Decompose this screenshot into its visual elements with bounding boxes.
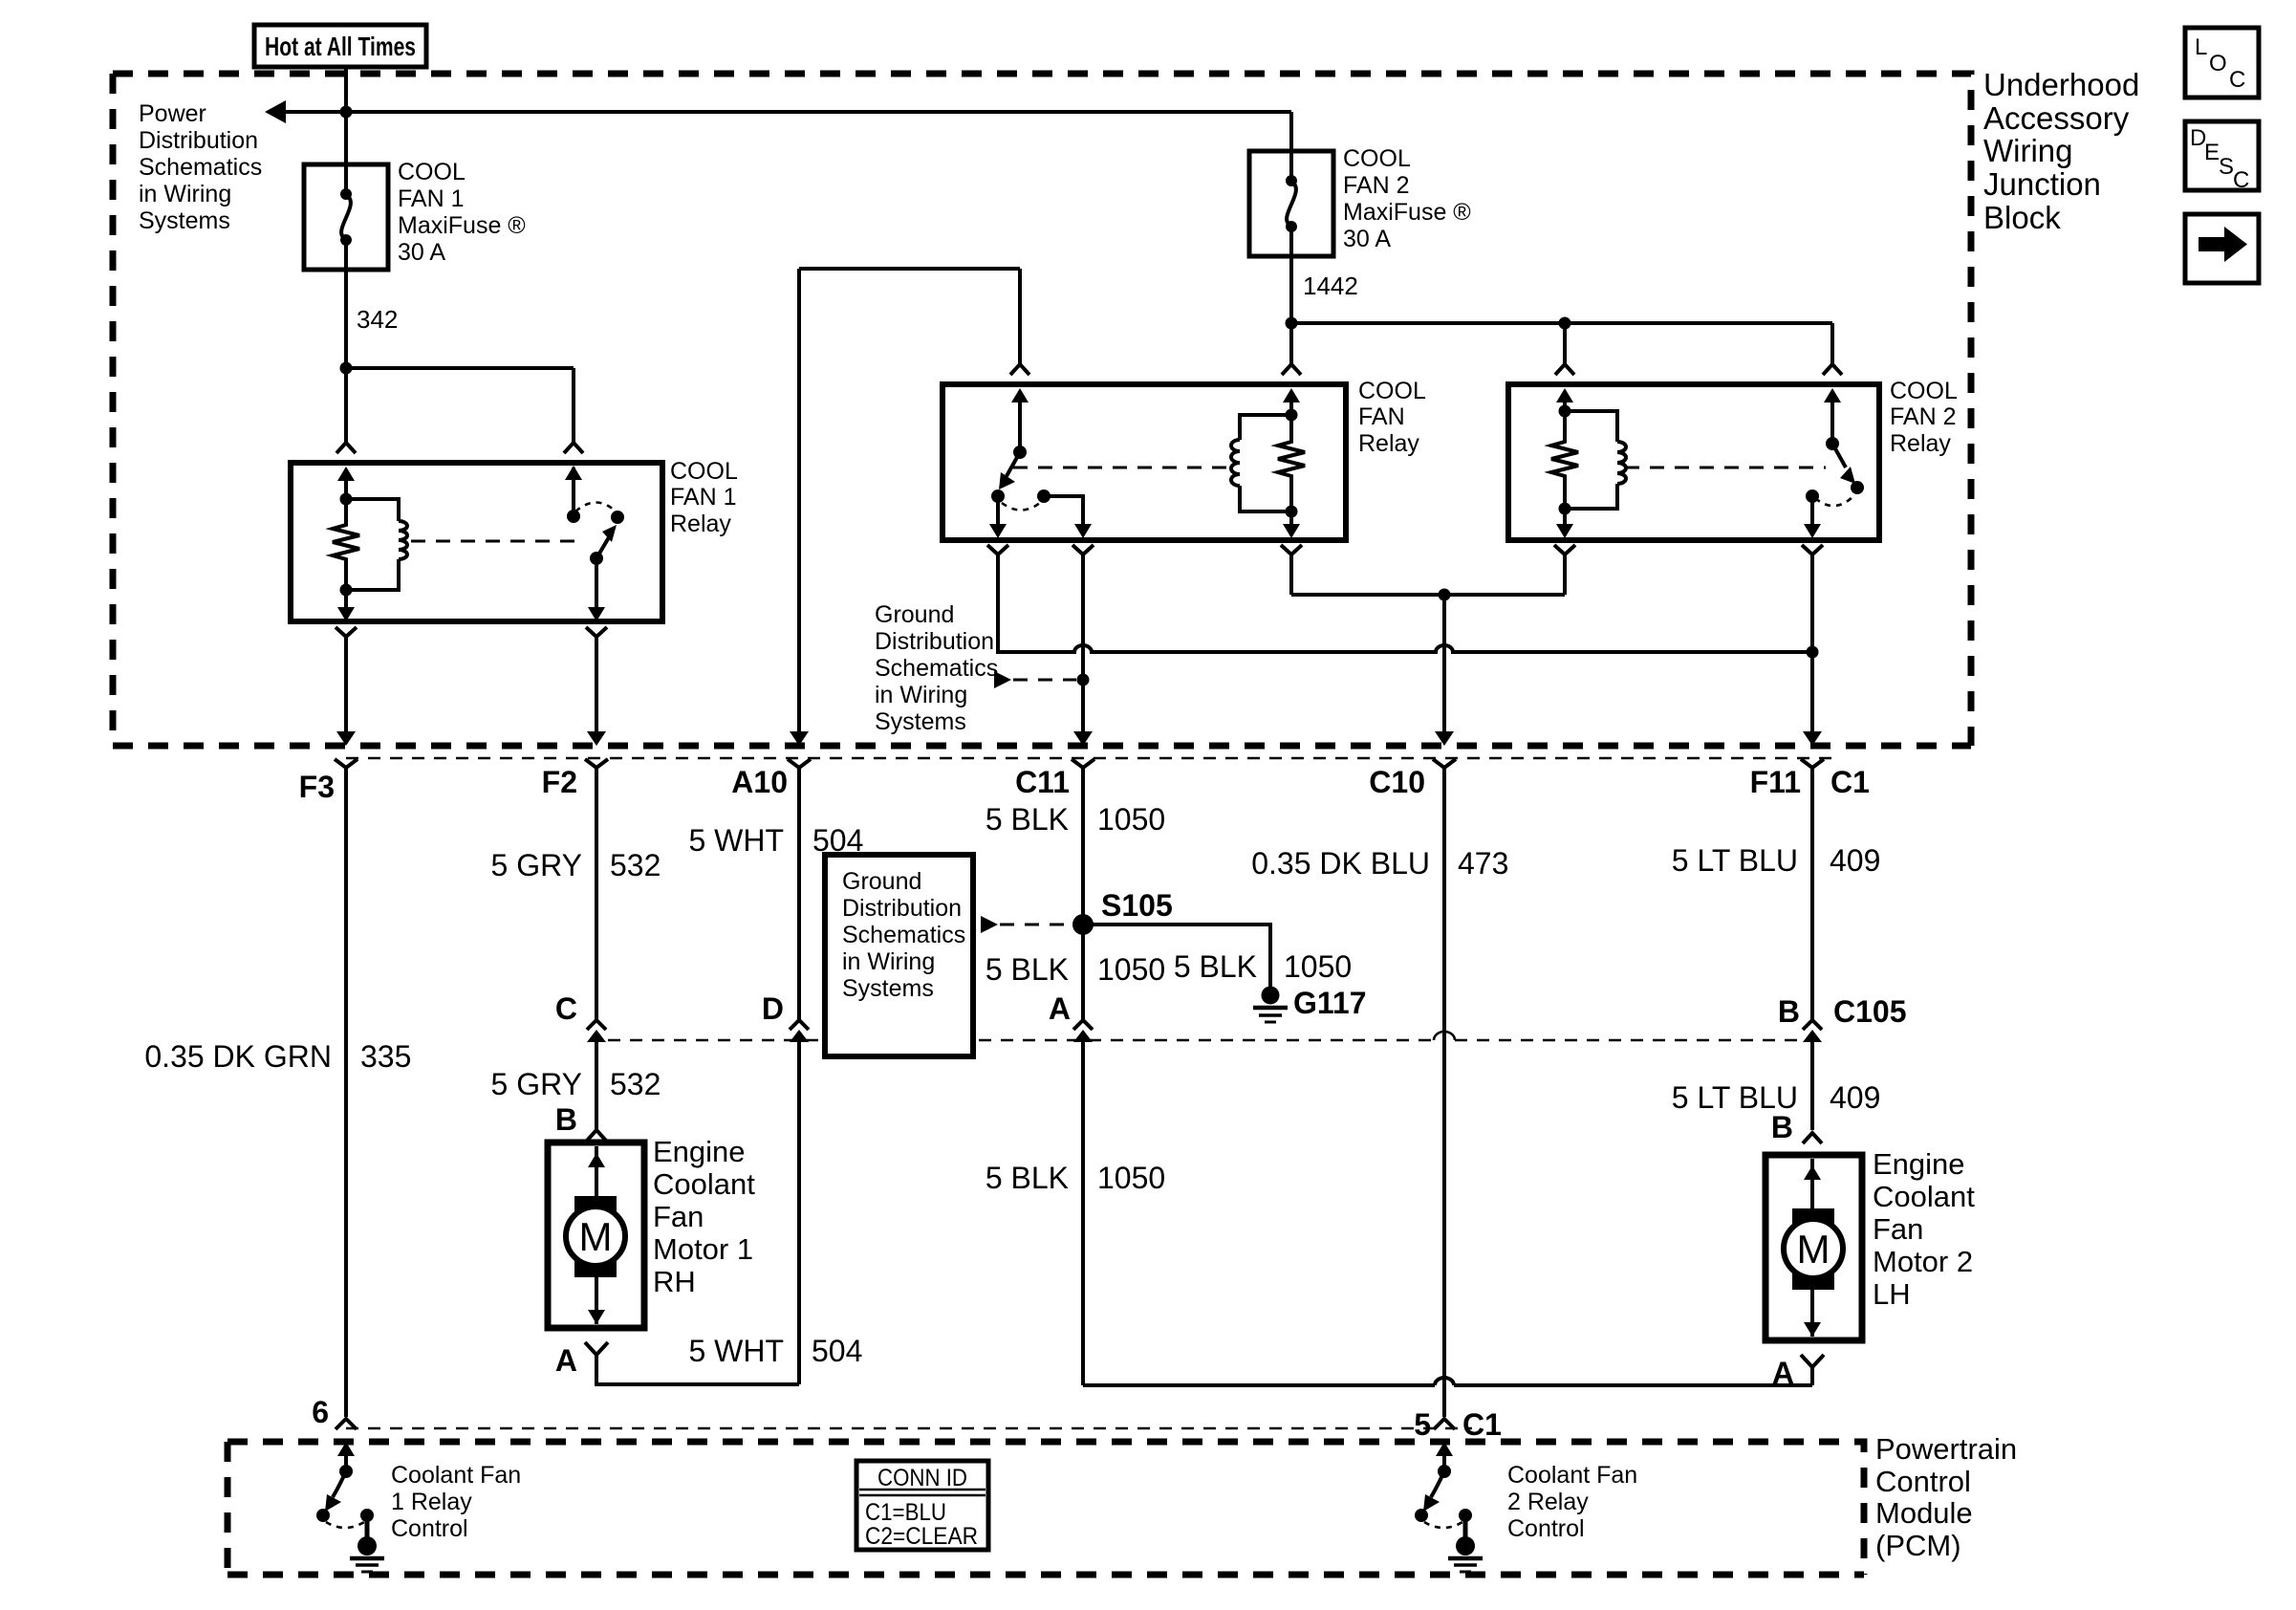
svg-text:5: 5 <box>1414 1407 1431 1442</box>
wire 342 from fuse 1 to branch <box>340 240 399 375</box>
svg-text:B: B <box>555 1102 577 1137</box>
icon box right arrow <box>2185 214 2259 283</box>
svg-text:Fan: Fan <box>1873 1212 1923 1246</box>
svg-text:Powertrain: Powertrain <box>1875 1432 2017 1466</box>
wire F2 from relay pole to connector <box>587 637 606 746</box>
Underhood Accessory Wiring Junction Block dashed border <box>113 74 1971 746</box>
wire F3 to PCM (0.35 DK GRN 335) <box>344 768 348 1417</box>
wire C10 drop to connector <box>1435 595 1454 746</box>
connector chevron F2 <box>585 759 608 768</box>
COOL FAN 2 relay switch blade <box>1832 444 1864 494</box>
relay COOL FAN 2 box <box>1508 384 1879 540</box>
PCM Powertrain Control Module dashed box <box>227 1442 1864 1575</box>
svg-text:2 Relay: 2 Relay <box>1507 1489 1589 1515</box>
pin chevron above COOL FAN 2 relay coil <box>1555 364 1574 375</box>
svg-text:5 LT BLU: 5 LT BLU <box>1672 843 1798 878</box>
C105 in-line connector row dashed line <box>608 1039 1812 1042</box>
wire branch to relay switch pin <box>346 368 574 443</box>
dashed control link in COOL FAN 2 relay <box>1625 467 1826 469</box>
svg-text:F11: F11 <box>1750 765 1801 799</box>
wire D to motor 1 link (5 WHT 504 lower) <box>688 1048 862 1384</box>
icon box LOC <box>2185 28 2259 98</box>
svg-text:C10: C10 <box>1369 765 1425 799</box>
svg-text:Engine: Engine <box>653 1135 746 1168</box>
svg-text:F2: F2 <box>542 765 577 799</box>
svg-text:FAN 2: FAN 2 <box>1890 403 1956 430</box>
pin chevron above COOL FAN relay coil <box>1282 364 1301 375</box>
svg-text:1442: 1442 <box>1303 272 1358 300</box>
svg-text:M: M <box>1797 1227 1830 1272</box>
ground G117 <box>1253 986 1367 1022</box>
wire from COOL FAN relay left contact to F11 junction <box>998 555 1819 659</box>
svg-text:409: 409 <box>1830 843 1880 878</box>
wire to power distribution (arrow left) <box>265 100 1291 123</box>
svg-text:B: B <box>1778 994 1800 1029</box>
svg-text:1 Relay: 1 Relay <box>391 1489 472 1515</box>
svg-text:5 BLK: 5 BLK <box>986 1161 1069 1195</box>
svg-text:1050: 1050 <box>1097 952 1165 987</box>
svg-text:5 BLK: 5 BLK <box>986 802 1069 837</box>
PCM coolant fan 1 driver dashed arc <box>326 1522 364 1528</box>
svg-text:Relay: Relay <box>1890 430 1951 457</box>
CONN ID table <box>856 1461 988 1550</box>
dashed throw arc in COOL FAN relay <box>1002 503 1040 511</box>
icon box DESC <box>2185 121 2259 193</box>
wire F11/C1 to B connector (5 LT BLU 409) <box>1810 768 1814 1020</box>
svg-text:C2=CLEAR: C2=CLEAR <box>865 1523 978 1550</box>
fuse COOL FAN 1 MaxiFuse 30 A <box>304 164 388 270</box>
wire F2 to C connector (5 GRY 532) <box>595 768 598 1020</box>
svg-text:Schematics: Schematics <box>139 154 262 181</box>
motor 2 symbol M <box>1784 1208 1843 1290</box>
pin chevron below COOL FAN 2 relay switch <box>1802 545 1823 555</box>
COOL FAN 1 relay coil pin arrow <box>337 467 355 506</box>
fuse COOL FAN 2 MaxiFuse 30 A <box>1249 151 1333 256</box>
PCM coolant fan 1 driver ground <box>350 1509 384 1572</box>
svg-text:Relay: Relay <box>670 511 731 537</box>
wire B to motor 2 (5 LT BLU 409 lower) <box>1672 1048 1881 1130</box>
label COOL FAN 1 Relay <box>670 458 738 537</box>
PCM coolant fan 2 driver dashed arc <box>1424 1522 1462 1528</box>
svg-text:1050: 1050 <box>1284 949 1352 984</box>
svg-text:B: B <box>1771 1110 1793 1144</box>
label Engine Coolant Fan Motor 2 LH <box>1873 1147 1975 1311</box>
wire from coil pins to C10 drop <box>1291 555 1565 601</box>
svg-text:Systems: Systems <box>139 207 230 234</box>
pin chevron A motor 1 <box>585 1342 608 1355</box>
svg-text:1050: 1050 <box>1097 1161 1165 1195</box>
PCM coolant fan 2 relay driver arrow <box>1436 1442 1453 1478</box>
label COOL FAN 2 MaxiFuse 30 A <box>1343 145 1471 252</box>
COOL FAN 1 relay switch contact from top <box>565 466 582 523</box>
PCM chevron at pin 5 C1 <box>1434 1419 1455 1429</box>
svg-text:S105: S105 <box>1101 888 1173 923</box>
splice S105 <box>1072 888 1173 935</box>
wire A to bottom link (5 BLK 1050 lower) <box>986 1048 1165 1385</box>
svg-text:Coolant Fan: Coolant Fan <box>1507 1462 1637 1489</box>
wire label 0.35 DK BLU 473 <box>1251 846 1508 881</box>
svg-text:Coolant: Coolant <box>653 1167 755 1201</box>
dashed control link in COOL FAN 1 relay <box>411 540 583 543</box>
svg-text:Power: Power <box>139 100 206 127</box>
COOL FAN relay switch blade <box>991 452 1020 503</box>
wire label 5 WHT 504 (upper) <box>688 823 863 858</box>
svg-text:F3: F3 <box>299 770 335 804</box>
svg-text:0.35 DK BLU: 0.35 DK BLU <box>1251 846 1430 881</box>
wire C11 to A connector (5 BLK 1050) <box>1081 768 1085 1020</box>
svg-text:5 WHT: 5 WHT <box>688 823 784 858</box>
svg-text:O: O <box>2209 51 2227 76</box>
wire C11 from COOL FAN relay right contact to connector <box>1073 555 1093 746</box>
svg-text:Distribution: Distribution <box>842 895 962 922</box>
label Engine Coolant Fan Motor 1 RH <box>653 1135 755 1298</box>
pin chevron below COOL FAN 2 relay coil <box>1554 545 1575 555</box>
dashed pointer to splice S105 <box>981 916 1071 933</box>
svg-text:Control: Control <box>1875 1465 1971 1498</box>
C105 connector pair at D <box>790 1020 809 1048</box>
COOL FAN relay left contact to pin <box>989 496 1007 538</box>
svg-text:in Wiring: in Wiring <box>875 682 967 708</box>
COOL FAN 2 relay coil bottom pin arrow <box>1556 509 1573 538</box>
svg-text:C1=BLU: C1=BLU <box>865 1499 946 1526</box>
COOL FAN 2 relay switch pin arrow <box>1824 388 1841 450</box>
svg-text:30 A: 30 A <box>398 239 445 266</box>
svg-text:Underhood: Underhood <box>1983 67 2139 102</box>
dashed throw arc in COOL FAN 2 relay <box>1815 494 1855 506</box>
svg-text:E: E <box>2204 140 2220 165</box>
wire F3 from relay to connector <box>336 637 356 746</box>
svg-text:Hot at All Times: Hot at All Times <box>265 32 416 61</box>
svg-text:Systems: Systems <box>875 708 966 735</box>
wire motor 1 A to 5 WHT riser <box>596 1355 799 1384</box>
connector chevron C10 <box>1433 759 1456 768</box>
wire 1442 from fuse 2 <box>1286 227 1358 364</box>
pin chevron below COOL FAN 1 relay coil <box>336 627 357 637</box>
svg-text:473: 473 <box>1458 846 1508 881</box>
svg-text:RH: RH <box>653 1265 696 1298</box>
label COOL FAN 2 Relay <box>1890 378 1958 457</box>
pin chevron B motor 2 <box>1803 1133 1822 1143</box>
relay COOL FAN box <box>942 384 1346 540</box>
COOL FAN relay right contact <box>1037 490 1092 538</box>
svg-text:FAN 1: FAN 1 <box>670 484 736 511</box>
svg-text:Control: Control <box>1507 1515 1585 1542</box>
PCM chevron at pin 6 <box>336 1419 357 1429</box>
svg-text:532: 532 <box>610 1067 661 1101</box>
svg-text:C: C <box>2233 167 2249 193</box>
svg-text:MaxiFuse ®: MaxiFuse ® <box>398 212 526 239</box>
svg-text:COOL: COOL <box>1343 145 1411 172</box>
svg-text:in Wiring: in Wiring <box>842 948 935 975</box>
relay COOL FAN 1 box <box>291 463 662 621</box>
note box Ground Distribution Schematics in Wiring Systems (S105) <box>825 855 973 1056</box>
wire from power line down to fuse 2 <box>1289 112 1293 179</box>
svg-text:532: 532 <box>610 848 661 882</box>
motor 2 top lead arrow <box>1804 1159 1821 1208</box>
COOL FAN 2 relay left contact to pin <box>1804 490 1821 538</box>
svg-text:COOL: COOL <box>670 458 738 485</box>
wire from branch down to relay coil pin <box>344 368 348 443</box>
pin chevron B motor 1 <box>587 1130 606 1141</box>
svg-text:5 BLK: 5 BLK <box>986 952 1069 987</box>
svg-text:FAN 2: FAN 2 <box>1343 172 1409 199</box>
svg-text:D: D <box>762 991 784 1026</box>
connector row thin dashed line <box>346 757 1832 760</box>
C105 connector pair at A <box>1073 1020 1093 1048</box>
svg-text:Coolant Fan: Coolant Fan <box>391 1462 521 1489</box>
wire from Hot at All Times down to fuse 1 <box>340 67 353 192</box>
svg-text:5 WHT: 5 WHT <box>688 1334 784 1368</box>
motor 1 top lead arrow <box>588 1146 605 1196</box>
COOL FAN relay switch pin arrow <box>1011 388 1029 459</box>
wire C11 riser arrow at junction border <box>790 731 809 746</box>
svg-text:C105: C105 <box>1833 994 1907 1029</box>
svg-text:L: L <box>2195 34 2207 60</box>
svg-text:335: 335 <box>360 1039 411 1074</box>
svg-text:Wiring: Wiring <box>1983 133 2073 168</box>
svg-text:Accessory: Accessory <box>1983 100 2130 136</box>
svg-text:LH: LH <box>1873 1277 1911 1311</box>
svg-text:Systems: Systems <box>842 975 934 1002</box>
connector chevron F3 <box>335 759 357 768</box>
PCM coolant fan 2 driver ground <box>1448 1509 1483 1572</box>
wire label 5 BLK 1050 (upper) <box>986 802 1165 837</box>
pin chevron below COOL FAN 1 relay pole <box>586 627 607 637</box>
note Ground Distribution Schematics in Wiring Systems (upper) <box>875 601 998 735</box>
svg-text:Distribution: Distribution <box>139 127 258 154</box>
svg-text:S: S <box>2219 154 2234 180</box>
svg-text:MaxiFuse ®: MaxiFuse ® <box>1343 199 1471 226</box>
connector chevron A10 <box>788 759 811 768</box>
pin chevron below COOL FAN relay coil <box>1281 545 1302 555</box>
pin chevron above COOL FAN relay switch <box>1010 364 1029 375</box>
svg-text:FAN 1: FAN 1 <box>398 185 464 212</box>
wire C10 to PCM (0.35 DK BLU 473) <box>1442 768 1446 1417</box>
note Coolant Fan 2 Relay Control <box>1507 1462 1637 1542</box>
svg-text:Motor 2: Motor 2 <box>1873 1245 1973 1278</box>
motor 1 symbol M <box>566 1196 625 1277</box>
coil in COOL FAN relay <box>1231 415 1291 511</box>
wire F11 from COOL FAN 2 relay switch to connector <box>1803 555 1822 746</box>
svg-text:Distribution: Distribution <box>875 628 994 655</box>
pin chevron below COOL FAN relay right contact <box>1072 545 1094 555</box>
svg-text:Control: Control <box>391 1515 468 1542</box>
C105 connector pair at B <box>1803 1020 1822 1048</box>
motor 2 bottom lead arrow <box>1804 1290 1821 1337</box>
COOL FAN 1 relay switch pole pin arrow <box>588 558 605 621</box>
label Underhood Accessory Wiring Junction Block <box>1983 67 2139 235</box>
wire label 5 BLK 1050 (lower left) <box>986 952 1165 987</box>
svg-text:FAN: FAN <box>1358 403 1405 430</box>
svg-text:C1: C1 <box>1462 1407 1502 1442</box>
connector chevron C11 <box>1072 759 1094 768</box>
svg-text:Ground: Ground <box>842 868 921 895</box>
resistor in COOL FAN 1 relay <box>333 499 359 590</box>
PCM thin dashed connector line <box>346 1427 1472 1430</box>
svg-text:Module: Module <box>1875 1496 1973 1530</box>
note Coolant Fan 1 Relay Control <box>391 1462 521 1542</box>
svg-text:Schematics: Schematics <box>842 922 965 948</box>
svg-text:6: 6 <box>312 1395 329 1429</box>
svg-text:C1: C1 <box>1830 765 1870 799</box>
svg-text:Schematics: Schematics <box>875 655 998 682</box>
svg-text:Fan: Fan <box>653 1200 704 1233</box>
wire C to motor 1 B (5 GRY 532 lower) <box>491 1048 661 1130</box>
dashed pointer to C11 wire <box>994 671 1076 688</box>
wire branch 1442 to COOL FAN 2 relay pins <box>1291 317 1832 365</box>
svg-text:342: 342 <box>357 305 398 334</box>
label COOL FAN 1 MaxiFuse 30 A <box>398 159 526 266</box>
svg-text:Engine: Engine <box>1873 1147 1965 1181</box>
svg-text:Coolant: Coolant <box>1873 1180 1975 1213</box>
node Hot at All Times label box <box>254 25 426 67</box>
svg-text:Ground: Ground <box>875 601 954 628</box>
motor 1 bottom lead arrow <box>588 1277 605 1324</box>
svg-text:C: C <box>555 991 577 1026</box>
svg-text:5 GRY: 5 GRY <box>491 1067 582 1101</box>
COOL FAN relay coil bottom pin arrow <box>1283 511 1300 538</box>
svg-text:Junction: Junction <box>1983 166 2101 202</box>
svg-text:5 GRY: 5 GRY <box>491 848 582 882</box>
svg-text:30 A: 30 A <box>1343 226 1391 252</box>
motor Engine Coolant Fan Motor 1 RH box <box>548 1142 644 1328</box>
pin chevron above COOL FAN 2 relay switch <box>1823 364 1842 375</box>
PCM coolant fan 2 driver blade <box>1415 1471 1444 1522</box>
pin chevron below COOL FAN relay left contact <box>987 545 1008 555</box>
svg-text:504: 504 <box>812 1334 862 1368</box>
wire label 5 LT BLU 409 (upper) <box>1672 843 1881 878</box>
resistor in COOL FAN relay <box>1278 388 1305 518</box>
C105 hop over C10 wire <box>1434 1032 1455 1040</box>
svg-text:C11: C11 <box>1015 765 1070 799</box>
wire label 5 GRY 532 (upper) <box>491 848 661 882</box>
svg-text:5 BLK: 5 BLK <box>1174 949 1257 984</box>
svg-text:A: A <box>555 1343 577 1378</box>
svg-text:A10: A10 <box>731 765 788 799</box>
C105 connector pair at C <box>587 1020 606 1048</box>
wire A10 riser to COOL FAN relay switch pin <box>799 269 1020 737</box>
PCM coolant fan 1 driver blade <box>316 1471 346 1522</box>
dashed control link in COOL FAN relay <box>1013 467 1232 469</box>
wire label 0.35 DK GRN 335 <box>144 1039 411 1074</box>
motor Engine Coolant Fan Motor 2 LH box <box>1765 1155 1862 1340</box>
PCM coolant fan 1 relay driver arrow <box>337 1442 355 1478</box>
svg-text:0.35 DK GRN: 0.35 DK GRN <box>144 1039 332 1074</box>
dashed throw arc in COOL FAN 1 relay <box>575 503 616 512</box>
label COOL FAN Relay <box>1358 378 1426 457</box>
coil in COOL FAN 1 relay <box>340 499 408 597</box>
resistor in COOL FAN 2 relay <box>1551 388 1578 515</box>
svg-text:G117: G117 <box>1293 986 1367 1020</box>
svg-text:1050: 1050 <box>1097 802 1165 837</box>
wire from S105 to G117 (5 BLK 1050) <box>1083 925 1270 987</box>
COOL FAN 1 relay coil bottom pin arrow <box>337 590 355 621</box>
svg-text:Block: Block <box>1983 200 2061 235</box>
svg-text:M: M <box>579 1214 613 1259</box>
coil in COOL FAN 2 relay <box>1565 411 1626 509</box>
wire A10 to D connector (5 WHT 504) <box>797 768 801 1020</box>
svg-text:A: A <box>1049 991 1071 1026</box>
svg-text:COOL: COOL <box>1890 378 1958 404</box>
wire motor 2 A to 5 BLK link with hop <box>1083 1367 1812 1385</box>
svg-text:C: C <box>2229 67 2245 93</box>
svg-text:COOL: COOL <box>1358 378 1426 404</box>
svg-text:Motor 1: Motor 1 <box>653 1232 753 1266</box>
svg-text:in Wiring: in Wiring <box>139 181 231 207</box>
svg-text:CONN ID: CONN ID <box>877 1465 967 1491</box>
pin chevron A motor 2 <box>1801 1355 1824 1367</box>
label Powertrain Control Module (PCM) <box>1875 1432 2017 1562</box>
svg-text:COOL: COOL <box>398 159 466 185</box>
connector chevron F11/C1 <box>1801 759 1824 768</box>
wire label 5 BLK 1050 (S105 branch) <box>1174 949 1352 984</box>
COOL FAN 1 relay switch blade <box>590 511 624 565</box>
svg-text:409: 409 <box>1830 1080 1880 1115</box>
note Power Distribution Schematics in Wiring Systems <box>139 100 262 234</box>
svg-text:Relay: Relay <box>1358 430 1419 457</box>
svg-text:(PCM): (PCM) <box>1875 1529 1961 1562</box>
pin chevron above COOL FAN 1 relay coil <box>336 443 356 453</box>
pin chevron above COOL FAN 1 relay contact <box>564 443 583 453</box>
